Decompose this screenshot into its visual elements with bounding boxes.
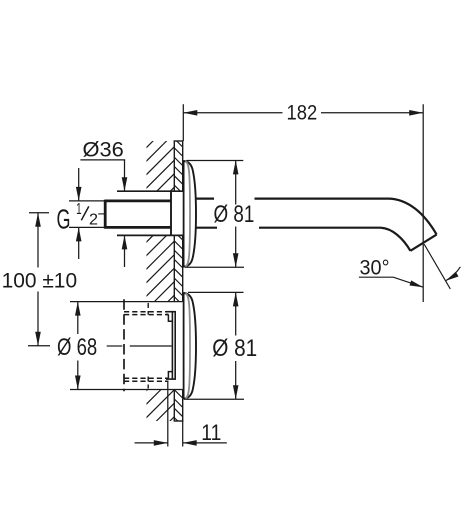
- svg-text:G: G: [57, 203, 71, 234]
- concealed box dashed bottom edges: [124, 377, 169, 379]
- collar Ø36 on wall plate: [170, 191, 172, 235]
- svg-text:Ø36: Ø36: [83, 137, 124, 161]
- svg-text:30°: 30°: [360, 255, 390, 279]
- dim Ø68: dimension line: [77, 302, 79, 334]
- dim Ø36: lower stem + up arrow: [124, 235, 126, 267]
- dim 182 arrow left: [183, 110, 197, 116]
- wall: sparse brick hatch: [0, 100, 464, 450]
- top escutcheon plate face: [183, 161, 196, 267]
- dim 30°: spray direction line: [424, 244, 450, 289]
- dim 11: tails: [135, 442, 168, 444]
- dim Ø81 top: dimension line: [235, 160, 237, 204]
- svg-text:11: 11: [201, 420, 221, 445]
- dim 100±10: dimension line: [37, 213, 39, 268]
- dim 100±10: arrows: [35, 213, 41, 227]
- dim 100±10: bottom tick: [28, 345, 50, 347]
- dim Ø36: leader underline: [80, 159, 125, 161]
- hidden hole edges at rough wall: [147, 303, 149, 315]
- dim Ø81 top: arrows: [233, 160, 239, 174]
- centre line of lower unit: [107, 345, 123, 347]
- fixing plate top tab: [168, 314, 172, 321]
- svg-text:Ø 68: Ø 68: [57, 334, 97, 361]
- dim 182 arrow right: [409, 110, 423, 116]
- dim Ø81 bottom: dimension line: [235, 292, 237, 335]
- dim 182 extension line right (spout outlet axis): [422, 104, 424, 302]
- dim Ø68: arrows: [75, 302, 81, 316]
- lower plate dome edge: [185, 293, 190, 398]
- wall: plaster band hatch: [100, 55, 250, 531]
- top plate dome edge: [185, 161, 190, 266]
- spout tube: [196, 199, 437, 251]
- dim Ø81 bottom: extension lines: [188, 291, 244, 293]
- dim G1/2: bottom stem + up arrow: [78, 227, 80, 259]
- top escutcheon plate back edge: [183, 160, 185, 267]
- dim 182 extension line left (wall surface): [182, 104, 184, 141]
- svg-text:2: 2: [89, 212, 98, 229]
- dim 182 dimension line: [183, 112, 282, 114]
- dim G1/2: top stem + down arrow: [78, 168, 80, 201]
- dim 100±10: top tick: [29, 212, 49, 214]
- svg-text:Ø 81: Ø 81: [214, 201, 255, 228]
- dim Ø36: stem + down arrow: [124, 160, 126, 191]
- dim 30°: angle arc + arrow: [446, 267, 461, 281]
- dim Ø81 top: extension lines: [186, 160, 243, 162]
- dim 11: extension lines: [167, 381, 169, 447]
- lower escutcheon plate face: [183, 293, 196, 399]
- lower escutcheon plate back edge: [183, 292, 185, 399]
- dim Ø68: extension lines: [70, 301, 183, 303]
- svg-text:1: 1: [76, 201, 82, 218]
- centre line of spout pipe: [98, 213, 105, 215]
- dim 30°: leader under text: [359, 277, 423, 287]
- dim Ø81 bottom: arrows: [233, 292, 239, 306]
- concealed box dashed left edge: [123, 299, 125, 391]
- dim G1/2: extension lines: [69, 200, 105, 202]
- concealed box dashed top edges: [124, 311, 169, 313]
- svg-text:182: 182: [287, 101, 318, 125]
- svg-text:Ø 81: Ø 81: [212, 335, 257, 362]
- dim 11: arrows: [154, 440, 168, 446]
- wall: plaster band edges: [173, 141, 175, 191]
- fixing plate bottom tab: [168, 372, 172, 379]
- dim Ø36: extension lines / collar top+bottom edges: [117, 190, 183, 192]
- pipe shank G1/2: [105, 200, 171, 229]
- svg-text:100 ±10: 100 ±10: [2, 270, 78, 293]
- fixing plate: [166, 312, 175, 379]
